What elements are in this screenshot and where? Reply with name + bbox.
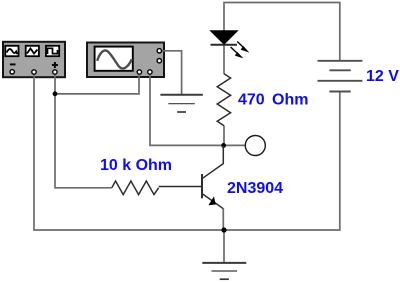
triangle button [26,46,39,56]
node: collector junction dot [221,143,226,148]
transistor Q1 2N3904 [159,146,224,209]
wire: collector node to probe circle [224,144,245,146]
LED light arrow 1 [237,42,243,48]
generator terminals [10,70,57,75]
wire: emitter lead down to node [222,209,224,231]
sine button [5,46,18,56]
node: generator junction dot [53,91,58,96]
battery V1 [318,61,363,92]
oscilloscope XSC1 body [87,43,164,78]
node: probe circle [245,136,265,156]
resistor R1 470 Ohm (vertical) [217,74,230,126]
plus label [52,64,58,66]
resistor R2 10 k Ohm (horizontal) [112,181,159,195]
wire: generator - terminal down, bottom rail to emitter node [34,72,224,230]
collector lead [203,146,224,178]
LED D1 [211,31,250,59]
square button [46,46,59,56]
svg-text:2N3904: 2N3904 [227,180,283,197]
base lead [159,186,202,188]
ground (scope) [160,95,202,112]
LED light arrow 2 [231,47,237,53]
wire: generator + terminal down to base resistor [55,72,112,188]
wire: LED cathode to 470 ohm resistor [223,45,225,75]
wire: top net LED anode to battery + [224,3,340,61]
minus label [10,63,16,65]
emitter arrow [208,196,215,205]
wire: scope ground terminal to ground symbol [159,51,181,95]
svg-text:470Ohm: 470Ohm [238,92,308,109]
svg-text:12 V: 12 V [366,68,399,85]
function generator XFG1 body [3,42,65,77]
wire: scope left terminal to generator + wire [55,72,139,94]
wire: emitter node down to ground [223,230,225,263]
ground (emitter) [202,263,246,279]
wire: battery - down and left to emitter node [224,92,340,231]
node: emitter junction dot [221,227,226,232]
svg-text:10 k Ohm: 10 k Ohm [100,157,172,174]
base bar [201,174,203,198]
wire: 470 ohm resistor to collector node [223,126,225,146]
wire: scope channel terminal down and right to collector node [150,72,223,145]
emitter lead [203,194,224,209]
oscilloscope terminals [137,49,161,75]
